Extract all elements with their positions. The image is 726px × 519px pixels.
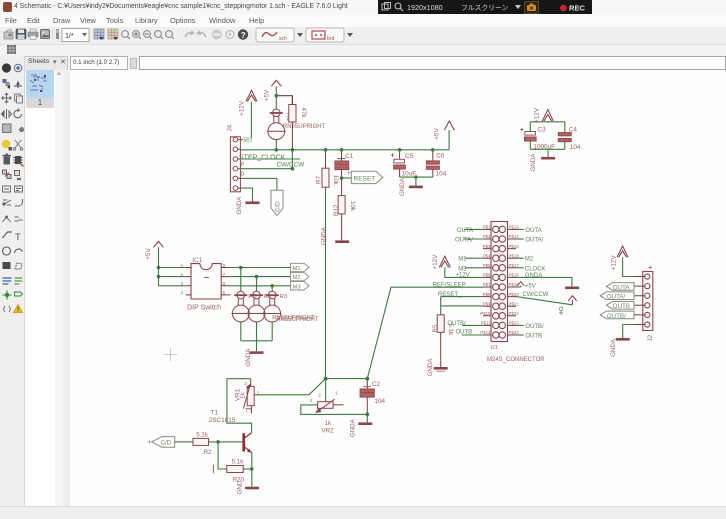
power +5V supply arrow (above R1 button) [271,80,281,86]
connector U1 left pin names [480,225,491,336]
wire OUTB (P$12) [462,334,483,336]
svg-text:REF/SLEEP: REF/SLEEP [433,282,466,288]
svg-text:1: 1 [181,263,184,268]
svg-text:M3: M3 [293,284,301,290]
ground GNDA (C3 C4) [530,153,555,172]
resistor R12 10k [338,178,345,240]
svg-text:C6: C6 [436,153,445,160]
svg-text:7: 7 [223,272,226,277]
wire node to R6 top [276,96,292,105]
rec bar dropdown arrow [515,5,521,9]
svg-text:47k: 47k [300,108,307,119]
svg-text:M24S_CONNECTOR: M24S_CONNECTOR [487,357,545,363]
wire +5V stem to rail [448,130,450,150]
svg-text:P$8: P$8 [483,292,491,297]
connector J2 plus mark [649,266,653,270]
svg-text:+12V: +12V [533,107,540,123]
node label origin marker (CW/CCW) [559,307,563,315]
svg-text:2: 2 [181,272,184,277]
potentiometer VR2 1k [313,399,344,412]
palette r10 miter [15,199,23,206]
svg-text:C4: C4 [569,127,578,134]
junction base/R20 branch [216,440,220,444]
ground GNDA (J2) [610,338,630,357]
svg-text:OUTB: OUTB [613,303,630,310]
svg-text:+12V: +12V [239,100,246,116]
svg-text:+12V: +12V [610,255,617,271]
svg-text:3: 3 [310,398,313,403]
capacitor C5 10uF [391,150,406,177]
svg-text:M1: M1 [293,266,301,272]
junction C5/rail [398,148,402,152]
wire +12V to P$6 [445,267,483,277]
svg-text:1k: 1k [240,392,247,399]
svg-text:OUTA: OUTA [613,284,631,291]
svg-text:GNDA: GNDA [245,348,252,367]
wire buttons common to ground [241,322,272,351]
wire R6 extension down to pin4 wire [291,150,293,169]
sheets thumbnail doodles [30,75,47,92]
toolbar save icon [16,29,26,39]
toolbar2 grid table icon [7,45,16,54]
junction IC1 pin2 feed [157,275,161,279]
svg-text:GNDA: GNDA [525,273,542,279]
svg-text:4: 4 [181,290,184,295]
junction button R9 [255,275,259,279]
net flag OUTA/ (J2) [600,292,634,301]
svg-text:P$6: P$6 [483,273,491,278]
svg-text:D: D [241,172,245,178]
wire R1 bottom to rail [275,140,277,150]
palette r13 arc [15,249,23,253]
wire J4 pin4 to R6 branch [240,168,292,170]
svg-text:R3: R3 [280,294,287,300]
junction R6ext/pin4 wire [291,167,295,171]
wire J4 pin6 to ground [240,188,252,201]
svg-text:+5V: +5V [264,89,271,101]
palette r17 attribute [4,306,11,312]
svg-text:P: P [241,162,245,168]
svg-text:C2: C2 [372,381,381,388]
svg-text:RN55UPRIGHT: RN55UPRIGHT [276,317,319,323]
toolbar undo redo [185,31,206,37]
svg-text:OUTB: OUTB [456,329,473,335]
wire VR1 wiper diagonal to junction [309,379,326,395]
wire T1 emitter to ground [251,453,253,487]
capacitor C1 [335,150,349,178]
wire +12V to J2 pin1 [623,257,634,276]
resistor R7 10k [322,150,329,187]
junction button R3 [270,284,274,288]
power +5V arrow (end of CW/CCW diagonal) [568,296,576,305]
svg-text:GNDA: GNDA [610,338,617,357]
wire IC1 pin7 row to M2 flag [230,276,290,278]
svg-text:P$22: P$22 [509,311,520,316]
net flag OUTA (J2) [606,283,634,292]
wire R20 to emitter [243,468,252,470]
svg-text:104: 104 [570,144,581,151]
svg-text:10k: 10k [349,201,356,212]
toolbar separator [52,29,54,41]
toolbar zoom icons [122,31,174,39]
wire +5V stub (P$19) [516,286,521,288]
junction R7/rail [324,148,328,152]
svg-text:P$2: P$2 [483,234,491,239]
resistor R9 upright [247,291,266,322]
wire CW/CCW (J4 pin3) [240,158,300,160]
junction C2 bottom [365,413,369,417]
svg-text:R12: R12 [333,204,340,216]
wire R2 to T1 base [209,441,243,443]
svg-text:P$16: P$16 [509,253,520,258]
svg-text:C3: C3 [537,127,546,134]
svg-text:CW/CCW: CW/CCW [277,162,306,169]
svg-text:C/D: C/D [161,440,172,447]
wire P$9 to R5 [441,297,483,315]
palette r10 smash [3,200,11,205]
wire base branch down to R20 [218,442,227,469]
svg-text:DIP Switch: DIP Switch [187,305,221,312]
connector U1 body M24S [491,222,508,342]
wire T1 collector up to VR loop [227,379,252,433]
switch IC1 DIP body [191,264,221,299]
svg-text:1000uF: 1000uF [533,144,555,151]
junction R6/rail [291,148,295,152]
svg-text:OUTB/: OUTB/ [525,324,544,330]
power +12V supply arrow (left of J4) [246,90,257,101]
palette r16 label [15,292,23,296]
toolbar print icon [28,29,38,40]
svg-text:CLOCK: CLOCK [525,266,546,272]
power +5V supply arrow (DIP switch) [154,241,164,247]
net flag M2 [291,272,310,281]
palette r12 wire [3,232,13,238]
junction gnd tee C5C6 [414,175,418,179]
wire C/D flag to R2 [175,441,193,443]
wire C5 bottom to C6 bottom [400,176,433,178]
svg-text:M1: M1 [458,257,467,263]
wire REF/SLEEP diagonal [367,287,483,378]
junction R1/rail [275,148,279,152]
wire VR2 wiper stem [325,379,327,402]
wire OUTB/ (P$23) [516,324,524,326]
svg-text:J4: J4 [227,124,234,131]
resistor R2 5.1k [193,438,209,445]
wire J2 pin6 to ground [623,325,634,339]
ground GNDA (J4) [236,196,260,215]
palette r14 rect [3,262,11,269]
junction IC1 pin1 feed [157,266,161,270]
wire +5V stem to node [275,86,277,109]
resistor R1 upright [267,109,286,140]
wire J4 pin5 to C/D flag [240,178,277,190]
wire OUTB/ (P$11) [462,324,483,326]
palette r6 cut [13,140,23,150]
junction C6/rail [431,148,435,152]
wire OUTA (P$13) [516,228,524,230]
net flag RESET [347,171,383,184]
svg-text:P$15: P$15 [509,244,520,249]
palette r8 pinswap [3,170,12,179]
svg-text:+5V: +5V [145,248,152,260]
palette r2 mark [14,81,22,88]
svg-text:P$1: P$1 [483,225,491,230]
palette r4 rotate [14,109,22,118]
capacitor C3 1000uF [520,128,536,141]
net flag OUTB/ (J2) [600,311,634,320]
wire OUTB (P$24) [516,334,524,336]
svg-text:GNDA: GNDA [349,418,356,437]
palette r8 replace [15,171,22,181]
svg-text:5: 5 [223,290,226,295]
resistor R20 5.1k [213,465,243,473]
svg-text:+5V: +5V [434,128,441,140]
svg-text:GNDA: GNDA [321,226,328,245]
capacitor C2 104 [360,379,374,415]
connector U1 pin stubs [483,229,516,335]
svg-text:M2: M2 [293,275,301,281]
svg-text:R7: R7 [316,176,323,184]
palette r6 paste [2,140,12,151]
svg-text:RN55UPRIGHT: RN55UPRIGHT [283,124,326,130]
svg-text:P$21: P$21 [509,301,520,306]
svg-text:GNDA: GNDA [427,358,434,377]
svg-text:104: 104 [436,170,447,177]
svg-text:C/D: C/D [275,201,282,212]
toolbar go icon [226,31,234,39]
net flag M1 [291,263,310,272]
junction +5V/R1/R6 [275,94,279,98]
switch IC1 pin numbers [181,263,226,295]
svg-text:P$10: P$10 [480,311,491,316]
potentiometer VR1 1k [243,379,309,414]
svg-text:P$7: P$7 [483,282,491,287]
capacitor C4 104 [558,133,571,142]
transistor T1 2SC1815 [242,433,251,453]
svg-text:RESET_: RESET_ [438,292,462,298]
svg-text:3: 3 [181,281,184,286]
ground GNDA (R12) [321,226,350,245]
wire +5V stem to IC1 pins [159,247,186,285]
svg-text:GNDA: GNDA [530,153,537,172]
connector J4 body [230,137,240,192]
junction emitter/R20 [250,467,254,471]
svg-text:GNDA: GNDA [399,177,406,196]
svg-text:1k: 1k [325,420,332,427]
toolbar grid icon [108,29,118,40]
svg-text:3: 3 [244,381,247,386]
frame origin cross [164,348,177,361]
potentiometer VR2 pin numbers [310,391,339,403]
svg-text:1: 1 [335,391,338,396]
wire junction to C2 node [326,378,368,380]
net flag C/D (below J4) [271,190,283,215]
toolbar help icon [238,29,248,39]
wire RESET (P$8) [441,296,483,298]
palette r9 value [15,186,23,192]
svg-text:GND: GND [236,480,243,494]
wire IC1 pin8 row to M1 flag [230,267,290,269]
palette r11 split [3,216,11,222]
palette r14 polygon [15,263,22,269]
palette r3 move [2,93,12,103]
svg-text:1: 1 [245,407,248,412]
wire button R3 drop [271,286,273,292]
svg-text:CW/CCW: CW/CCW [522,292,548,298]
svg-text:J2: J2 [647,334,654,341]
svg-text:T1: T1 [211,409,219,416]
svg-text:6: 6 [223,281,226,286]
ground GNDA (C2) [349,414,372,437]
potentiometer VR1 pin numbers [244,381,260,412]
junction C2 node [365,377,369,381]
svg-text:M3: M3 [458,266,467,272]
connector J2 pin stubs [634,277,645,325]
rec bar window icon [382,3,391,11]
svg-text:+12V: +12V [432,254,439,270]
resistor R8 R9 R3 values RN55UPRIGHT overlap [272,315,319,323]
toolbar sheet combo [62,29,89,42]
svg-text:5.1k: 5.1k [232,459,245,466]
resistor R3 upright [263,291,282,322]
svg-text:P$9: P$9 [483,301,491,306]
svg-text:P$4: P$4 [483,253,491,258]
wire CLOCK (P$17) [516,267,524,269]
svg-text:+5V: +5V [525,283,536,289]
toolbar export image icon [40,29,50,39]
palette r1 show [14,64,22,72]
svg-text:OUTA/: OUTA/ [525,238,543,244]
palette r9 name [3,186,11,192]
svg-text:P$20: P$20 [509,292,520,297]
palette r15 net [15,278,23,284]
toolbar sheet small icon [56,29,59,39]
svg-text:RESET: RESET [354,176,376,183]
palette r4 mirror [2,109,12,119]
power +12V supply arrow (J2) [617,246,628,257]
wire R7 bottom long vertical [325,187,327,378]
wire M2 (P$16) [516,257,524,259]
svg-text:OUTA/: OUTA/ [607,294,626,301]
net flag OUTB (J2) [606,302,634,311]
junction button R8 [239,266,243,270]
wire C3 C4 loop [530,121,565,157]
palette r16 junction [3,291,12,300]
power +5V supply arrow (rail end) [444,121,454,130]
wire STEP_CLOCK rail [240,149,449,151]
wire M3 (P$5) [465,267,483,269]
svg-text:OUTB/: OUTB/ [447,321,466,327]
wire GNDA (P$18) [516,277,572,286]
svg-text:U1: U1 [491,345,498,351]
resistor R6 47k [289,96,296,150]
palette r1 info [2,63,11,72]
svg-text:OUTB: OUTB [525,334,542,340]
svg-text:VR2: VR2 [322,427,335,434]
wire OUTA/ (P$14) [516,238,524,240]
svg-text:OUTA: OUTA [525,228,541,234]
ground GNDA (P$18) [565,287,579,290]
rec bar camera button [525,2,539,14]
palette r3 copy [15,94,23,103]
svg-text:104: 104 [374,398,385,405]
rec bar REC dot [560,5,567,12]
svg-text:IC1: IC1 [192,257,202,264]
svg-text:C5: C5 [405,153,414,160]
svg-text:2: 2 [318,393,321,398]
node V+ label at J4 pin1 [243,137,252,142]
svg-text:10k: 10k [332,175,339,186]
toolbar stop icon [212,30,222,40]
ground GND (T1 emitter) [236,480,259,494]
svg-text:OUTA: OUTA [457,228,473,234]
svg-text:GNDA: GNDA [236,196,243,215]
svg-text:P$3: P$3 [483,244,491,249]
palette r7 delete [3,154,12,165]
palette r5 change [15,127,24,133]
palette r5 group [3,124,12,133]
net flag C/D (transistor input) [148,437,175,448]
capacitor C6 104 [426,150,439,177]
junction C1/rail [340,148,344,152]
rec bar magnifier icon [395,3,403,11]
connector J2 body [643,272,653,331]
svg-text:2: 2 [257,391,260,396]
svg-text:M2: M2 [525,257,534,263]
palette r11 invoke [15,217,23,221]
svg-text:R5: R5 [432,324,439,332]
svg-text:5.1k: 5.1k [196,432,209,439]
toolbar open icon [4,30,13,39]
wire IC1 pin6 row to M3 flag [230,285,290,287]
ground GNDA (C5 C6) [399,177,423,196]
svg-text:8: 8 [223,263,226,268]
resistor R5 5.1k [437,315,444,367]
wire OUTA (P$1) [464,228,483,230]
wire VR2 pin3 loop to C2 bottom [301,405,368,415]
wire button R8 drop [240,268,242,292]
ground GNDA (buttons) [245,348,264,367]
power +12V supply arrow (C3 C4 block) [542,110,553,121]
wire OUTA/ (P$2) [464,238,483,240]
svg-text:OUTA/: OUTA/ [455,238,473,244]
sheets scroll arrow [57,71,62,75]
toolbar layers icon [94,29,104,40]
wire M1 (P$4) [465,257,483,259]
connector U1 right pin names [509,225,520,336]
switch IC1 pins [186,268,231,295]
wire button R9 drop [256,277,258,292]
svg-text:OUTB/: OUTB/ [607,313,626,320]
net flag M3 [291,282,310,291]
toolbar brd button [306,28,344,42]
toolbar sch button [256,28,294,42]
palette r17 errors warning [14,305,23,313]
palette r13 circle [3,247,11,255]
junction C1/R12/RESET [340,176,344,180]
svg-text:C1: C1 [345,153,354,160]
svg-text:STEP_CLOCK: STEP_CLOCK [239,155,286,162]
power +5V mini arrow (P$19) [517,282,524,287]
ground GNDA (R5) [427,358,448,377]
svg-text:R2: R2 [204,449,212,456]
palette r15 bus [3,278,12,284]
palette r7 add [14,156,24,167]
svg-text:P$5: P$5 [483,263,491,268]
wire CW/CCW diagonal (P$20) [516,297,572,305]
resistor R8 upright [232,291,251,322]
wire +12V to J4 pin1 [240,102,251,140]
